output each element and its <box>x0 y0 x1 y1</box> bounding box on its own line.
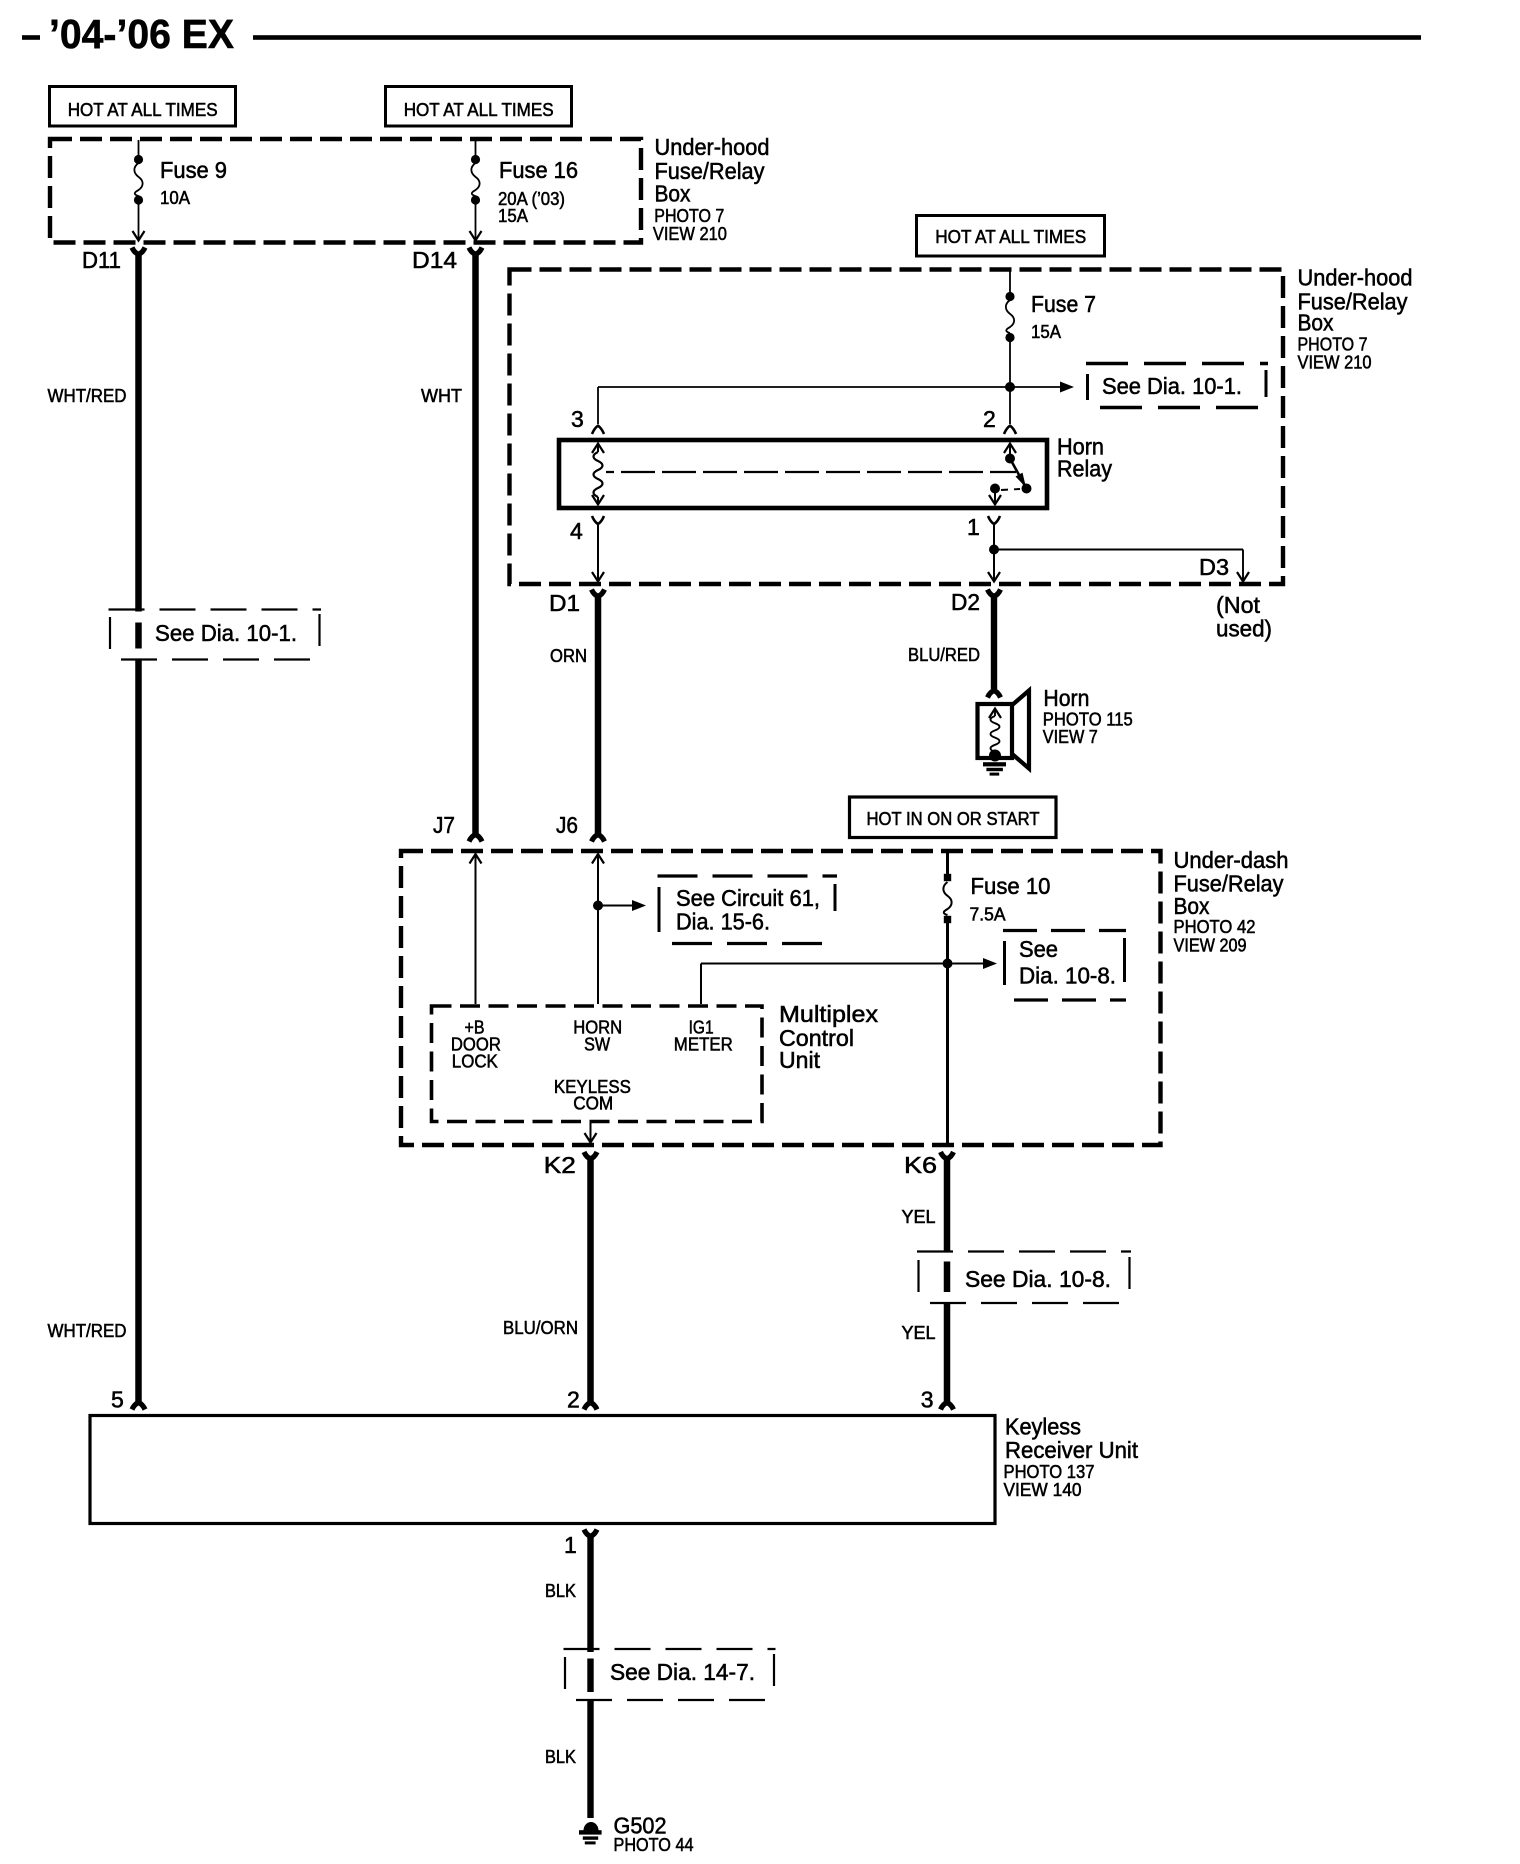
reference box See Circuit 61, Dia. 15-6. <box>658 874 838 877</box>
svg-text:K6: K6 <box>904 1152 937 1178</box>
fuse F10 wire from box top <box>946 852 949 874</box>
svg-text:J7: J7 <box>433 812 455 838</box>
svg-text:7.5A: 7.5A <box>970 904 1007 925</box>
svg-text:D1: D1 <box>549 590 580 616</box>
svg-text:LOCK: LOCK <box>452 1051 499 1072</box>
fuse F10 <box>944 874 951 881</box>
reference box See Dia. 10-8. (upper) <box>1003 929 1126 932</box>
svg-text:HOT IN ON OR START: HOT IN ON OR START <box>867 808 1040 829</box>
fuse F9 wire from box top <box>138 140 140 157</box>
wire relay pin 4 to D1 <box>597 524 599 580</box>
svg-text:K2: K2 <box>544 1152 576 1178</box>
node junction fuse10/IG1 tap <box>943 959 953 969</box>
svg-text:PHOTO 44: PHOTO 44 <box>614 1834 694 1855</box>
svg-text:See Circuit 61,: See Circuit 61, <box>676 885 820 911</box>
svg-text:Under-dash: Under-dash <box>1174 847 1289 873</box>
keyless receiver unit box <box>90 1416 995 1524</box>
svg-text:Under-hood: Under-hood <box>655 134 770 160</box>
svg-text:See Dia. 10-1.: See Dia. 10-1. <box>1102 373 1242 399</box>
wire IG1 METER pin riser <box>700 964 702 1005</box>
relay common contact (pin 1 side) <box>990 484 1000 494</box>
svg-text:10A: 10A <box>160 187 191 208</box>
wire BLU/RED from D2 to horn (thick) <box>991 595 997 689</box>
svg-text:(Not: (Not <box>1216 592 1261 618</box>
svg-text:Fuse 10: Fuse 10 <box>971 873 1051 899</box>
fuse F7 <box>1005 292 1014 301</box>
svg-text:VIEW 210: VIEW 210 <box>1298 352 1372 373</box>
svg-text:15A: 15A <box>1031 321 1062 342</box>
svg-text:See Dia. 14-7.: See Dia. 14-7. <box>610 1659 755 1685</box>
svg-text:’04-’06 EX: ’04-’06 EX <box>49 11 234 57</box>
wire fuse F10 down to K6 <box>946 923 949 1146</box>
wire WHT from D14 to J7 (thick) <box>472 253 479 834</box>
reference box See Dia. 10-1. (right) <box>1086 362 1268 365</box>
svg-text:See Dia. 10-1.: See Dia. 10-1. <box>155 620 297 646</box>
fuse F7 wire from box top <box>1009 270 1011 294</box>
node junction pin1/D3 tap <box>989 545 999 555</box>
svg-text:WHT: WHT <box>421 385 462 406</box>
svg-text:VIEW 140: VIEW 140 <box>1004 1479 1082 1500</box>
svg-text:METER: METER <box>674 1034 733 1055</box>
horn ground <box>989 750 1001 762</box>
wire tap to See Dia. 10-8 pointer <box>948 963 985 965</box>
wire tap to D3 (not used) <box>994 549 1243 551</box>
reference box See Dia. 10-8. (lower, on YEL wire) <box>917 1250 1131 1252</box>
wire HORN SW pin to J6 <box>592 854 604 864</box>
wire YEL from K6 to keyless pin 3 (thick) <box>944 1158 951 1251</box>
svg-text:BLU/RED: BLU/RED <box>908 644 980 665</box>
horn relay U1 box <box>559 440 1047 508</box>
svg-text:COM: COM <box>573 1093 613 1114</box>
svg-text:Multiplex: Multiplex <box>779 1001 878 1027</box>
svg-text:HOT AT ALL TIMES: HOT AT ALL TIMES <box>935 226 1086 247</box>
svg-text:Box: Box <box>1298 310 1334 336</box>
multiplex control unit box (dashed) <box>432 1006 763 1122</box>
under-hood fuse/relay box 2 (dashed) <box>510 270 1284 585</box>
svg-text:2: 2 <box>567 1387 580 1413</box>
wire WHT/RED from D11 to keyless pin 5 (thick) <box>135 253 142 612</box>
svg-text:15A: 15A <box>498 205 529 226</box>
svg-text:1: 1 <box>967 514 980 540</box>
svg-text:J6: J6 <box>556 812 578 838</box>
reference box See Dia. 10-1. (on WHT/RED wire) <box>109 608 322 610</box>
svg-text:Unit: Unit <box>779 1047 821 1073</box>
svg-text:YEL: YEL <box>902 1206 936 1227</box>
relay coil (pins 3-4) <box>592 444 604 454</box>
label box HOT IN ON OR START <box>850 797 1057 838</box>
under-dash fuse/relay box (dashed) <box>401 851 1161 1145</box>
wire fuse F7 to relay pin 2 <box>1009 340 1011 424</box>
svg-text:See: See <box>1019 936 1058 962</box>
svg-text:5: 5 <box>111 1387 124 1413</box>
svg-text:D2: D2 <box>951 589 980 615</box>
svg-text:D11: D11 <box>82 247 121 273</box>
wire relay pin 1 down <box>993 524 995 580</box>
svg-text:D3: D3 <box>1199 554 1229 580</box>
label box HOT AT ALL TIMES (middle) <box>386 87 572 127</box>
svg-text:D14: D14 <box>412 247 457 273</box>
svg-text:1: 1 <box>564 1532 577 1558</box>
title rule <box>253 35 1421 40</box>
svg-text:BLK: BLK <box>545 1580 577 1601</box>
ground G502 symbol <box>584 1822 599 1831</box>
svg-text:VIEW 209: VIEW 209 <box>1174 935 1247 956</box>
svg-text:Fuse 16: Fuse 16 <box>499 157 578 183</box>
svg-text:Horn: Horn <box>1043 685 1089 711</box>
svg-text:WHT/RED: WHT/RED <box>48 385 127 406</box>
fuse F9 <box>134 155 143 164</box>
relay armature <box>1010 459 1025 486</box>
svg-text:4: 4 <box>570 518 583 544</box>
fuse F16 wire from box top <box>475 140 477 157</box>
svg-text:YEL: YEL <box>902 1322 936 1343</box>
svg-text:BLK: BLK <box>545 1746 577 1767</box>
svg-text:Dia. 10-8.: Dia. 10-8. <box>1019 963 1116 989</box>
svg-text:BLU/ORN: BLU/ORN <box>503 1317 578 1338</box>
wire +B DOOR LOCK pin to J7 <box>470 854 482 864</box>
relay switch contact (pin 2 side) <box>1004 444 1016 454</box>
node junction horn-sw tap <box>593 901 603 911</box>
svg-text:HOT AT ALL TIMES: HOT AT ALL TIMES <box>404 99 554 120</box>
svg-text:Receiver Unit: Receiver Unit <box>1005 1437 1139 1463</box>
svg-text:Fuse 9: Fuse 9 <box>160 157 227 183</box>
svg-text:WHT/RED: WHT/RED <box>48 1320 127 1341</box>
wire KEYLESS COM pin to K2 <box>590 1122 592 1142</box>
svg-text:SW: SW <box>584 1034 610 1055</box>
svg-text:3: 3 <box>571 406 584 432</box>
wire ORN from D1 to J6 (thick) <box>595 595 602 834</box>
under-hood fuse/relay box 1 (dashed) <box>50 139 641 243</box>
svg-text:Under-hood: Under-hood <box>1298 264 1413 290</box>
svg-text:VIEW 210: VIEW 210 <box>653 223 727 244</box>
wire BLU/ORN from K2 to keyless pin 2 (thick) <box>587 1158 594 1404</box>
svg-text:VIEW 7: VIEW 7 <box>1043 726 1098 747</box>
svg-text:ORN: ORN <box>550 645 587 666</box>
svg-text:HOT AT ALL TIMES: HOT AT ALL TIMES <box>68 99 218 120</box>
svg-text:See Dia. 10-8.: See Dia. 10-8. <box>965 1266 1111 1292</box>
label box HOT AT ALL TIMES (left) <box>50 87 236 127</box>
fuse F16 <box>471 155 480 164</box>
svg-text:Box: Box <box>655 181 691 207</box>
wire tap to See Circuit 61 pointer <box>598 905 633 907</box>
wire horizontal to relay pin 3 <box>598 386 1010 388</box>
svg-text:3: 3 <box>921 1387 934 1413</box>
svg-text:Fuse 7: Fuse 7 <box>1031 291 1096 317</box>
label box HOT AT ALL TIMES (right) <box>917 216 1105 257</box>
wire tap to See Dia. 10-1 pointer <box>1010 386 1061 388</box>
svg-text:Dia. 15-6.: Dia. 15-6. <box>676 909 770 935</box>
node junction at fuse7/see-dia tap <box>1005 382 1015 392</box>
svg-text:used): used) <box>1216 616 1272 642</box>
svg-text:Keyless: Keyless <box>1005 1414 1081 1440</box>
svg-text:2: 2 <box>983 406 996 432</box>
title dash <box>22 35 40 40</box>
horn component <box>1011 691 1029 769</box>
wire BLK from keyless pin 1 to ground (thick) <box>587 1535 593 1652</box>
relay mechanical link (dashed) <box>606 471 1016 473</box>
svg-text:Relay: Relay <box>1057 456 1112 482</box>
reference box See Dia. 14-7. (on BLK wire) <box>564 1648 776 1650</box>
